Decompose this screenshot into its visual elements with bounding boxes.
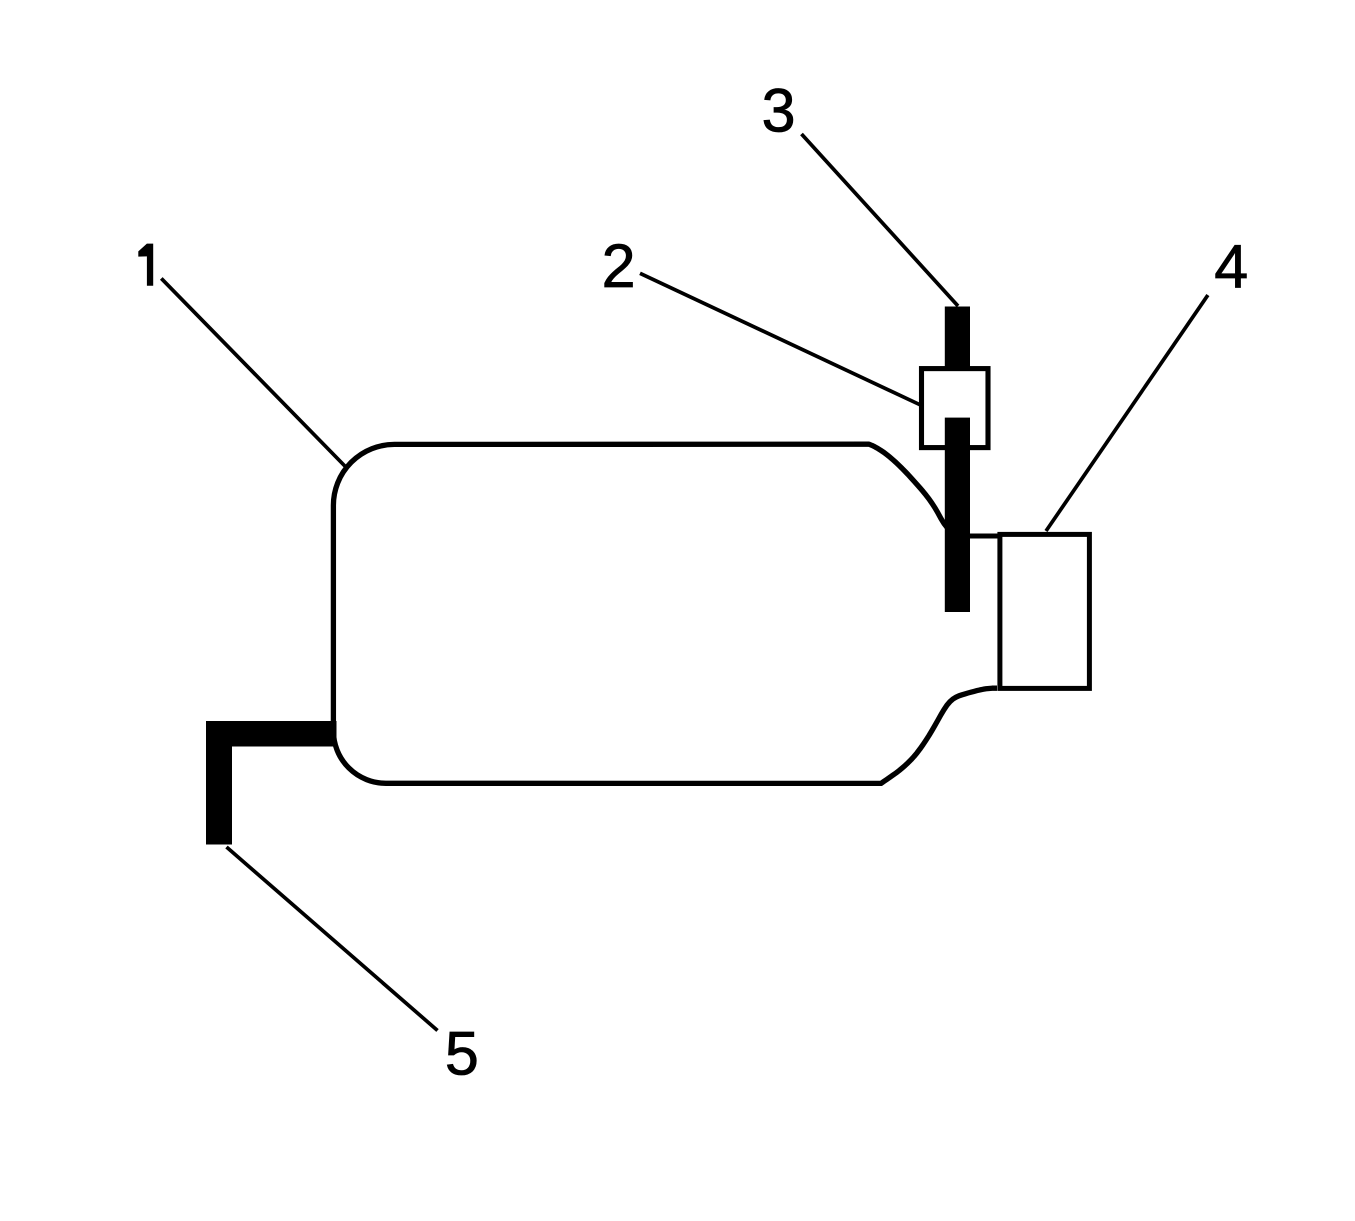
svg-text:3: 3 — [762, 76, 796, 144]
dip tube lower bar — [945, 418, 970, 612]
svg-text:2: 2 — [602, 232, 636, 300]
connector line from tube to neck — [960, 534, 1000, 539]
leader line to 4 — [1046, 295, 1208, 531]
cap square 2 — [922, 369, 989, 448]
svg-text:5: 5 — [445, 1020, 479, 1088]
bottle body outline (reservoir 1) — [333, 444, 997, 783]
outlet elbow 5: horizontal bar — [206, 721, 337, 747]
outlet elbow 5: vertical bar — [206, 721, 232, 845]
svg-text:4: 4 — [1214, 233, 1248, 301]
dip tube upper bar (3) — [945, 307, 970, 391]
leader line to 5 — [227, 847, 438, 1031]
leader line to 3 — [802, 134, 959, 306]
leader line to 1 — [161, 278, 345, 467]
neck opening rectangle 4 — [1000, 534, 1090, 688]
label 1 (custom Arial-style glyph, no foot serif) — [138, 244, 153, 286]
leader line to 2 — [640, 273, 921, 405]
